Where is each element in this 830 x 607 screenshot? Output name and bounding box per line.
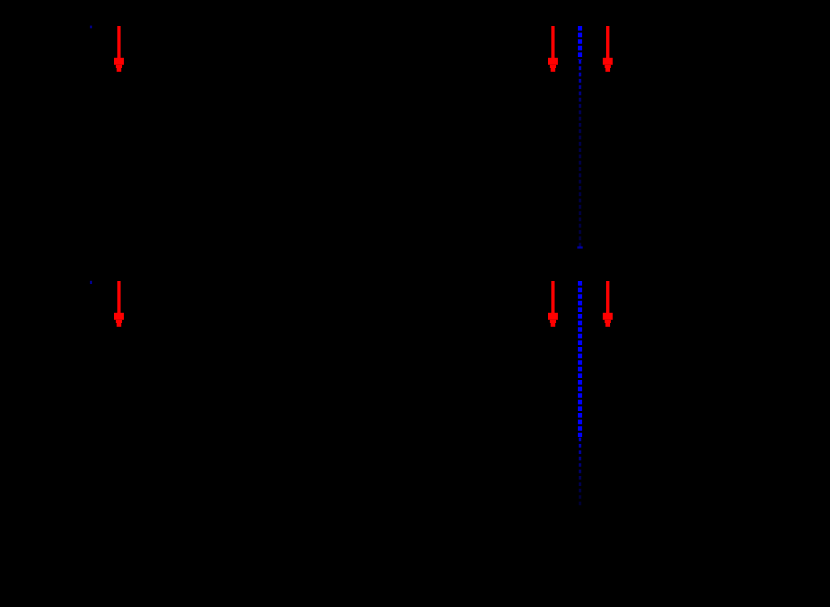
arrow top-right-1 red [548,26,558,72]
wire blue dashed mean line top bright part [578,26,582,60]
arrow bottom-left red [114,281,124,327]
node tip mark at bottom of top dashed line [577,246,582,248]
arrow bottom-right-2 red [603,281,613,327]
arrow top-left red [114,26,124,72]
node dot top-left navy [90,26,92,29]
node dot bottom-left navy [90,281,92,284]
wire blue dashed mean line bottom faded part [579,438,582,507]
wire blue dashed mean line top faded part [579,60,582,249]
arrow top-right-2 red [603,26,613,72]
arrow bottom-right-1 red [548,281,558,327]
wire blue dashed mean line bottom bright part [578,281,582,437]
